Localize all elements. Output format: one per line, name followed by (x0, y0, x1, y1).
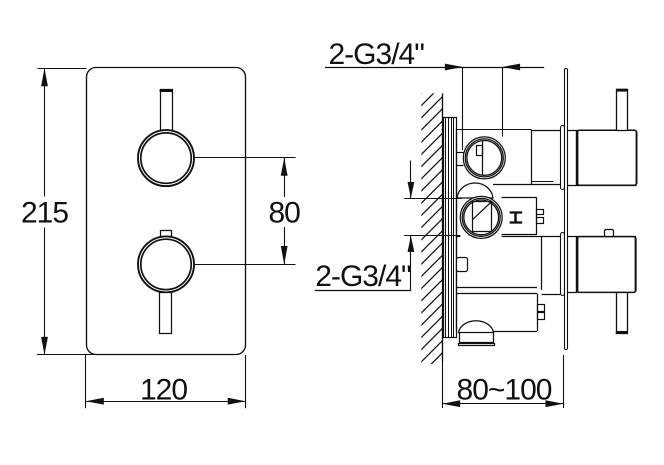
svg-text:2-G3/4": 2-G3/4" (329, 38, 425, 71)
svg-text:80: 80 (269, 197, 301, 230)
svg-text:2-G3/4": 2-G3/4" (315, 260, 411, 293)
svg-text:215: 215 (21, 197, 68, 230)
svg-text:120: 120 (140, 374, 187, 407)
svg-text:80~100: 80~100 (457, 374, 552, 407)
